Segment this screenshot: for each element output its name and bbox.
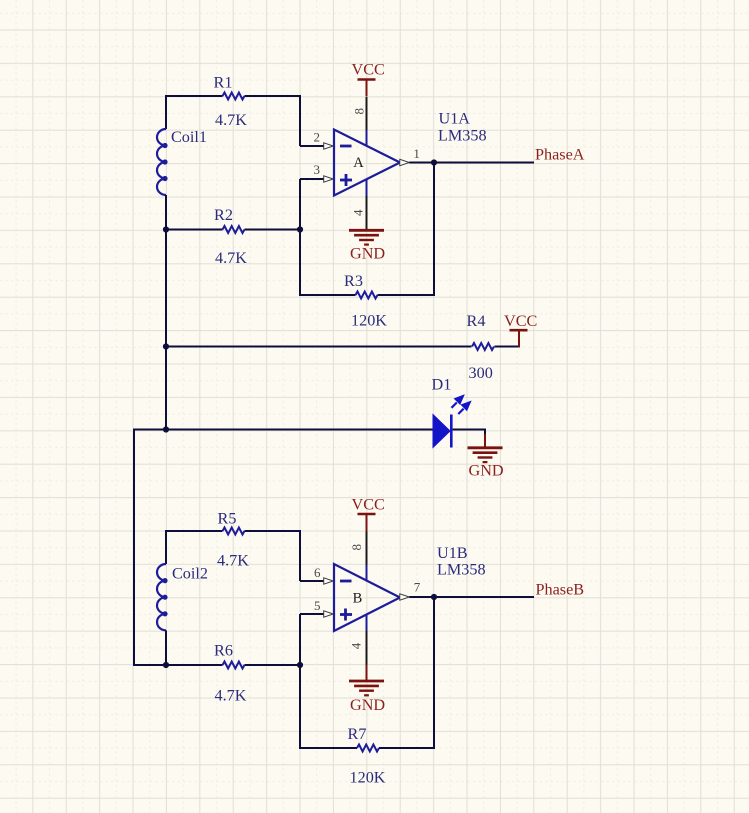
pin 8 inner segment B (366, 565, 368, 582)
red stub to GND at D1 (484, 434, 486, 448)
power VCC above U1A (352, 61, 385, 97)
wire feedback down to R3 (433, 163, 435, 297)
svg-text:B: B (353, 591, 363, 607)
inductor Coil2 (157, 564, 168, 630)
svg-text:GND: GND (350, 696, 385, 714)
wire R1 left segment (166, 95, 223, 97)
wire from R1 down to pin 2 (299, 95, 301, 146)
wire R2 right segment (245, 229, 302, 231)
svg-text:R6: R6 (214, 642, 233, 660)
pin 2 input arrow of U1A (324, 143, 334, 149)
svg-text:4: 4 (349, 642, 364, 649)
svg-text:4.7K: 4.7K (217, 552, 249, 570)
wire R5 left segment (166, 530, 223, 532)
resistor R6 (223, 662, 245, 669)
svg-text:7: 7 (414, 580, 421, 595)
U1A plus input mark (340, 174, 352, 186)
resistor R3 (356, 292, 378, 299)
inductor Coil1 (157, 129, 168, 195)
svg-text:R2: R2 (214, 206, 233, 224)
svg-text:VCC: VCC (352, 61, 385, 79)
svg-text:R3: R3 (344, 272, 363, 290)
svg-text:U1A: U1A (439, 110, 471, 128)
svg-text:300: 300 (469, 364, 493, 382)
pin 8 inner segment (366, 130, 368, 147)
op-amp U1B triangle (334, 564, 400, 631)
svg-text:Coil1: Coil1 (171, 128, 207, 146)
power VCC above U1B (352, 496, 385, 532)
svg-text:U1B: U1B (437, 544, 468, 562)
wire R7 right segment (379, 747, 435, 749)
pin 4 lead of U1A (366, 196, 368, 230)
svg-text:2: 2 (314, 129, 321, 144)
svg-text:4.7K: 4.7K (215, 249, 247, 267)
wire outer left rail down to R6 (133, 429, 135, 667)
pin 4 lead of U1B (366, 631, 368, 665)
wire corner down to LED ground (484, 429, 486, 435)
wire stub into pin 6 (300, 580, 325, 582)
D1 LED light arrows (452, 396, 470, 414)
svg-text:3: 3 (314, 162, 321, 177)
junction left rail / LED row (163, 426, 169, 432)
junction output node of U1A (431, 159, 437, 165)
pin 7 output arrow of U1B (400, 594, 410, 600)
wire left rail down to LED row (165, 230, 167, 431)
pin 8 lead of U1A (366, 97, 368, 130)
junction node R2 / inverting branch (297, 226, 303, 232)
resistor R2 (223, 226, 245, 233)
resistor R5 (223, 528, 245, 535)
wire red riser to VCC at R4 (518, 331, 520, 348)
svg-text:5: 5 (314, 598, 321, 613)
U1B minus input mark (340, 580, 352, 583)
svg-text:A: A (353, 155, 364, 171)
pin 8 lead of U1B (366, 532, 368, 565)
wire stub into pin 2 (300, 145, 325, 147)
wire R1 right segment (245, 95, 302, 97)
svg-text:GND: GND (469, 462, 504, 480)
svg-text:PhaseB: PhaseB (536, 581, 585, 599)
ground GND below U1A (349, 230, 385, 262)
wire R2 left segment (166, 229, 223, 231)
pin 4 inner segment (366, 179, 368, 196)
wire Coil1 bottom to R2 node (165, 195, 167, 231)
wire R5 right segment (245, 530, 302, 532)
op-amp U1A triangle (334, 130, 400, 196)
wire R6 left segment (134, 664, 223, 666)
junction left rail / R6 (163, 662, 169, 668)
wire pin3 branch down to R3 (299, 179, 301, 296)
wire R3 right segment (378, 294, 436, 296)
resistor R7 (357, 745, 379, 752)
svg-text:R4: R4 (467, 312, 486, 330)
svg-text:PhaseA: PhaseA (535, 146, 585, 164)
wire from R5 down to pin 6 (299, 530, 301, 581)
svg-text:1: 1 (413, 146, 420, 161)
pin 5 input arrow of U1B (324, 611, 334, 617)
power VCC at R4 (504, 312, 537, 330)
junction left rail / R4 row (163, 343, 169, 349)
U1B plus input mark (340, 609, 352, 621)
diode D1 LED body (433, 415, 451, 448)
wire R4 row (166, 346, 472, 348)
svg-text:R5: R5 (218, 510, 237, 528)
wire R4 to VCC stub (495, 346, 520, 348)
wire output to PhaseA (409, 162, 534, 164)
pin 3 input arrow of U1A (324, 176, 334, 182)
svg-text:4.7K: 4.7K (215, 111, 247, 129)
svg-text:VCC: VCC (504, 312, 537, 330)
red stub to GND below U1B (366, 665, 368, 682)
junction R6 / inverting branch B (297, 662, 303, 668)
svg-text:D1: D1 (432, 376, 452, 394)
junction node left rail / R2 (163, 226, 169, 232)
svg-text:Coil2: Coil2 (172, 565, 208, 583)
svg-text:4.7K: 4.7K (215, 687, 247, 705)
wire LED anode row (134, 429, 433, 431)
U1A minus input mark (340, 145, 352, 148)
resistor R1 (223, 93, 245, 100)
svg-text:VCC: VCC (352, 496, 385, 514)
svg-text:120K: 120K (351, 312, 387, 330)
wire feedback down to R7 (433, 597, 435, 749)
ground GND at D1 (468, 448, 504, 480)
junction output node of U1B (431, 594, 437, 600)
wire LED cathode to ground (453, 429, 485, 431)
pin 4 inner segment B (366, 614, 368, 631)
svg-text:120K: 120K (350, 769, 386, 787)
svg-text:8: 8 (349, 544, 364, 551)
wire output to PhaseB (409, 596, 534, 598)
svg-text:R1: R1 (214, 74, 233, 92)
wire R7 left segment (300, 747, 357, 749)
resistor R4 (472, 343, 494, 350)
wire stub into pin 3 (300, 178, 325, 180)
svg-text:6: 6 (314, 565, 321, 580)
pin 6 input arrow of U1B (324, 578, 334, 584)
svg-text:LM358: LM358 (437, 561, 486, 579)
svg-text:4: 4 (351, 209, 366, 216)
wire pin5 branch down to R7 (299, 614, 301, 749)
svg-text:GND: GND (350, 245, 385, 263)
wire R6 right segment (245, 664, 302, 666)
svg-text:LM358: LM358 (438, 127, 487, 145)
wire left rail to Coil2 top (165, 530, 167, 564)
wire left rail to Coil1 top (165, 95, 167, 129)
svg-text:R7: R7 (348, 725, 367, 743)
wire stub into pin 5 (300, 613, 325, 615)
svg-text:8: 8 (351, 108, 366, 115)
pin 1 output arrow of U1A (400, 159, 410, 165)
wire Coil2 bottom to R6 node (165, 630, 167, 666)
ground GND below U1B (349, 681, 385, 714)
wire R3 left segment (300, 294, 356, 296)
